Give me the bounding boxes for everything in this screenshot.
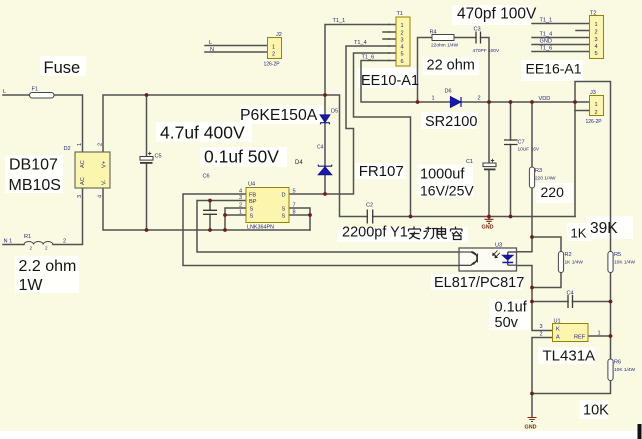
svg-text:S: S <box>250 214 254 220</box>
svg-text:REF: REF <box>574 335 586 341</box>
svg-text:126-2P: 126-2P <box>264 62 281 68</box>
svg-text:VDD: VDD <box>539 96 551 102</box>
svg-text:220: 220 <box>541 184 565 200</box>
svg-text:2: 2 <box>478 96 481 102</box>
svg-text:AC: AC <box>80 177 86 185</box>
svg-text:10UF 16V: 10UF 16V <box>518 147 540 153</box>
svg-text:C6: C6 <box>203 174 210 180</box>
svg-text:2: 2 <box>63 239 66 245</box>
svg-text:4: 4 <box>401 45 404 51</box>
svg-text:R3: R3 <box>535 168 542 174</box>
svg-text:J2: J2 <box>276 32 282 38</box>
svg-text:8: 8 <box>293 210 296 216</box>
svg-text:R1: R1 <box>24 234 31 240</box>
svg-text:V+: V+ <box>102 161 108 168</box>
svg-text:4: 4 <box>239 189 242 195</box>
svg-text:L: L <box>209 40 212 46</box>
svg-text:5: 5 <box>595 51 598 57</box>
svg-text:C7: C7 <box>518 140 525 146</box>
svg-text:GND: GND <box>525 425 537 431</box>
svg-text:K: K <box>556 327 560 333</box>
svg-text:0.1uf 50V: 0.1uf 50V <box>204 147 279 167</box>
svg-text:T1_4: T1_4 <box>354 40 367 46</box>
svg-text:T1_6: T1_6 <box>362 55 375 61</box>
svg-text:16V/25V: 16V/25V <box>420 183 474 199</box>
svg-text:10K 1/4W: 10K 1/4W <box>614 367 636 373</box>
svg-text:10K 1/4W: 10K 1/4W <box>614 260 636 266</box>
svg-text:3: 3 <box>595 37 598 43</box>
svg-text:T1_6: T1_6 <box>540 46 553 52</box>
svg-text:7: 7 <box>293 203 296 209</box>
svg-text:S: S <box>282 207 286 213</box>
svg-text:C4: C4 <box>567 291 574 297</box>
svg-text:10K: 10K <box>583 403 609 419</box>
svg-text:F1: F1 <box>32 87 39 93</box>
svg-text:GND: GND <box>540 39 552 45</box>
svg-text:6: 6 <box>401 59 404 65</box>
svg-text:GND: GND <box>482 225 494 231</box>
svg-text:1: 1 <box>595 22 598 28</box>
svg-text:D4: D4 <box>295 160 303 166</box>
svg-text:1W: 1W <box>19 277 44 294</box>
svg-text:22 ohm: 22 ohm <box>427 58 475 74</box>
svg-text:FR107: FR107 <box>359 163 404 180</box>
svg-text:220 1/4W: 220 1/4W <box>535 176 556 182</box>
svg-text:DB107: DB107 <box>9 157 58 174</box>
svg-text:TL431A: TL431A <box>543 348 596 365</box>
svg-text:LNK364PN: LNK364PN <box>247 225 274 231</box>
svg-text:U4: U4 <box>248 182 255 188</box>
svg-text:2.2 ohm: 2.2 ohm <box>19 258 77 275</box>
svg-text:R4: R4 <box>430 30 437 36</box>
svg-text:V-: V- <box>102 180 108 185</box>
svg-text:C5: C5 <box>155 154 162 160</box>
svg-text:T1_4: T1_4 <box>540 32 553 38</box>
svg-text:2: 2 <box>30 246 33 251</box>
svg-text:2: 2 <box>98 143 104 146</box>
svg-text:C2: C2 <box>366 203 373 209</box>
svg-text:4: 4 <box>98 195 104 198</box>
svg-text:0.1uf: 0.1uf <box>495 300 528 316</box>
svg-text:1: 1 <box>595 102 598 108</box>
svg-text:EL817/PC817: EL817/PC817 <box>434 275 524 291</box>
svg-text:50v: 50v <box>495 315 519 331</box>
svg-text:U1: U1 <box>554 319 561 325</box>
svg-text:2: 2 <box>401 31 404 37</box>
svg-text:470pf 100V: 470pf 100V <box>457 6 537 23</box>
svg-text:D6: D6 <box>445 89 452 95</box>
svg-text:EE10-A1: EE10-A1 <box>361 73 419 89</box>
svg-text:D2: D2 <box>64 146 71 152</box>
svg-text:2: 2 <box>45 246 48 251</box>
svg-text:T2: T2 <box>590 11 597 17</box>
svg-text:AC: AC <box>80 160 86 168</box>
svg-text:S: S <box>250 207 254 213</box>
svg-text:1: 1 <box>432 96 435 102</box>
svg-text:R6: R6 <box>614 360 621 366</box>
svg-text:2: 2 <box>540 332 543 338</box>
svg-text:C1: C1 <box>466 159 473 165</box>
svg-text:P6KE150A: P6KE150A <box>240 107 318 124</box>
svg-text:S: S <box>282 214 286 220</box>
svg-text:2: 2 <box>595 30 598 36</box>
svg-text:3: 3 <box>401 38 404 44</box>
svg-text:2: 2 <box>272 52 275 58</box>
svg-text:T1: T1 <box>397 11 404 17</box>
svg-text:3: 3 <box>540 324 543 330</box>
svg-text:1000uf: 1000uf <box>420 167 465 183</box>
svg-text:4.7uf 400V: 4.7uf 400V <box>160 123 245 143</box>
svg-text:39K: 39K <box>590 220 618 237</box>
svg-text:D5: D5 <box>331 109 338 115</box>
svg-text:5: 5 <box>293 189 296 195</box>
svg-text:1K 1/4W: 1K 1/4W <box>565 260 584 266</box>
svg-text:1: 1 <box>239 210 242 216</box>
svg-text:470PF 100V: 470PF 100V <box>473 48 500 54</box>
svg-text:22ohm 1/4W: 22ohm 1/4W <box>431 43 459 49</box>
svg-text:1: 1 <box>401 23 404 29</box>
svg-text:SR2100: SR2100 <box>425 114 477 130</box>
svg-text:1K: 1K <box>571 226 587 241</box>
svg-text:3: 3 <box>77 195 83 198</box>
svg-text:FB: FB <box>249 193 256 199</box>
svg-text:L: L <box>3 89 6 95</box>
svg-text:EE16-A1: EE16-A1 <box>526 61 582 77</box>
svg-text:2: 2 <box>239 203 242 209</box>
svg-text:2200pf Y1: 2200pf Y1 <box>342 225 408 241</box>
svg-text:1: 1 <box>77 143 83 146</box>
svg-text:2: 2 <box>595 110 598 116</box>
svg-text:J3: J3 <box>590 90 596 96</box>
svg-text:T1_1: T1_1 <box>333 18 346 24</box>
svg-text:D: D <box>282 193 286 199</box>
svg-text:1: 1 <box>598 331 601 337</box>
svg-text:C3: C3 <box>474 27 481 33</box>
svg-text:Fuse: Fuse <box>44 59 81 77</box>
svg-text:3: 3 <box>239 195 242 201</box>
svg-text:C4: C4 <box>317 145 324 151</box>
svg-text:U3: U3 <box>495 243 502 249</box>
svg-text:R5: R5 <box>614 252 621 258</box>
svg-text:N: N <box>210 47 214 53</box>
svg-text:126-2P: 126-2P <box>586 119 603 125</box>
svg-text:5: 5 <box>401 52 404 58</box>
svg-text:MB10S: MB10S <box>9 177 61 194</box>
svg-text:1: 1 <box>272 45 275 51</box>
svg-text:A: A <box>556 335 560 341</box>
svg-text:T1_1: T1_1 <box>540 18 553 24</box>
svg-text:BP: BP <box>249 199 257 205</box>
svg-text:4: 4 <box>595 44 598 50</box>
svg-text:N 1: N 1 <box>4 239 13 245</box>
svg-text:R2: R2 <box>565 252 572 258</box>
